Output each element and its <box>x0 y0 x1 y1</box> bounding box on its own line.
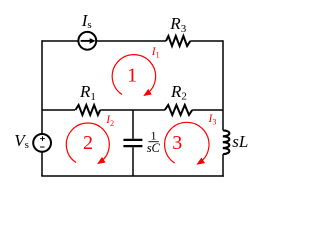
svg-text:1: 1 <box>127 65 137 87</box>
svg-text:sL: sL <box>232 132 248 151</box>
resistor R2 <box>165 105 192 115</box>
current source Is <box>78 32 96 50</box>
svg-text:2: 2 <box>83 132 93 154</box>
voltage source Vs <box>33 134 51 152</box>
capacitor C <box>123 140 142 146</box>
mesh loop 2 arrow <box>66 123 109 163</box>
wire middle center <box>100 109 165 111</box>
wire middle right <box>192 109 223 111</box>
resistor R1 <box>75 105 100 115</box>
wire top-left segment <box>42 40 78 42</box>
inductor L <box>223 130 230 154</box>
label 1/sC fraction <box>147 129 161 156</box>
svg-text:sC: sC <box>147 141 161 155</box>
resistor R3 <box>166 36 190 46</box>
wire right lower <box>222 154 224 177</box>
svg-text:3: 3 <box>172 132 182 154</box>
wire middle left <box>42 109 75 111</box>
mesh loop 3 arrow <box>165 122 209 163</box>
wire bottom <box>41 175 224 177</box>
mesh loop 1 arrow <box>112 55 155 95</box>
wire top-right segment <box>190 40 223 42</box>
wire left lower <box>41 152 43 176</box>
wire right upper <box>222 40 224 130</box>
wire left upper <box>41 40 43 133</box>
wire capacitor branch upper <box>132 110 134 139</box>
wire top-middle segment <box>97 40 166 42</box>
wire capacitor branch lower <box>132 147 134 176</box>
